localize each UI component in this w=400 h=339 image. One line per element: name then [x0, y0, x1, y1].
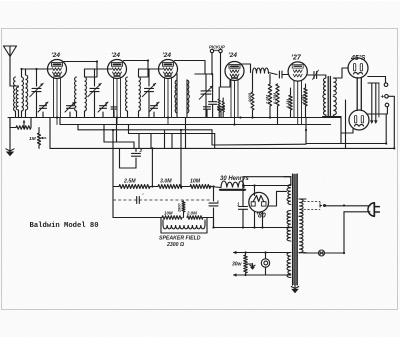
- svg-text:’24: ’24: [228, 52, 237, 59]
- speaker terminal 1: [384, 83, 388, 87]
- antenna coil L1: [16, 69, 36, 118]
- tube pins to bus: [165, 78, 172, 125]
- resistor 2800 vert: [178, 201, 186, 218]
- svg-text:45’S: 45’S: [350, 55, 366, 62]
- label 2.5M: [123, 179, 136, 185]
- bus vert x=306: [305, 118, 307, 144]
- svg-text:+: +: [381, 94, 385, 101]
- 1M resistor: [29, 128, 46, 149]
- wire y=227.5: [214, 227, 293, 229]
- vertical x=152.4: [151, 148, 153, 186]
- label '24: [162, 52, 171, 59]
- 45 filament leads: [368, 83, 379, 124]
- detector plate wire: [242, 64, 251, 73]
- svg-text:’24: ’24: [111, 52, 120, 59]
- svg-text:10M: 10M: [190, 179, 201, 185]
- svg-text:3.0M: 3.0M: [160, 179, 172, 185]
- label 10M field: [164, 211, 173, 216]
- wire T1 bottom to grid2: [341, 117, 353, 144]
- small cap C2b: [111, 107, 117, 118]
- label 30 Henrys: [220, 176, 249, 182]
- bus wire E y=148.4: [50, 147, 394, 149]
- rf choke: [253, 68, 269, 74]
- wire coil to grid: [85, 69, 113, 86]
- power transformer core: [292, 174, 297, 285]
- bypass cap 3: [204, 107, 211, 118]
- svg-text:2800: 2800: [178, 203, 182, 213]
- pt right winding 2: [299, 216, 306, 252]
- '45 tube V6: [348, 58, 368, 78]
- pickup label: [209, 45, 225, 50]
- trimmer cap C2a: [98, 102, 108, 118]
- title text: [30, 222, 99, 230]
- svg-text:2.0M: 2.0M: [186, 211, 197, 216]
- tuning coil (stage at x=117): [75, 77, 87, 118]
- label 10M: [190, 179, 201, 185]
- pt left winding 1: [284, 177, 291, 205]
- pt right winding 1: [299, 199, 306, 216]
- pickup wires: [195, 53, 230, 87]
- pickup coupling cap: [209, 74, 217, 118]
- resistor 10M: [182, 185, 211, 189]
- trimmer cap C1b: [65, 102, 75, 118]
- speaker terminal 3: [385, 103, 389, 107]
- svg-text:2.0M: 2.0M: [265, 94, 270, 105]
- wire tube2 plate to coil3: [124, 61, 149, 78]
- svg-text:2.5M: 2.5M: [300, 94, 305, 105]
- wire tube3 plate to det coil: [175, 61, 206, 75]
- filter cap 2: [237, 177, 248, 228]
- tube pins to bus: [114, 78, 121, 125]
- maze wires: [104, 118, 186, 149]
- '24 detector tube: [225, 62, 244, 81]
- resistor .0005 cap: [247, 73, 254, 118]
- label speaker field: [159, 236, 201, 242]
- detector coil: [175, 74, 205, 118]
- label '24 det: [228, 52, 237, 59]
- pt ground: [291, 284, 299, 293]
- svg-text:0.1M: 0.1M: [285, 98, 290, 108]
- bus wire B y=124.5: [60, 118, 331, 125]
- bus vert x=345.5: [345, 100, 347, 148]
- wire coil to grid: [139, 69, 164, 86]
- wire sec top to 45 grid: [333, 68, 348, 78]
- bus wire C y=130: [78, 125, 306, 146]
- pickup jack right: [214, 49, 223, 52]
- resistor 2.5M: [300, 84, 307, 118]
- coupling capacitor: [269, 71, 289, 78]
- '27 tube U5: [288, 62, 307, 81]
- svg-text:.0005: .0005: [247, 92, 252, 103]
- svg-text:’24: ’24: [51, 52, 60, 59]
- bus wire A y=117.5: [8, 117, 341, 119]
- bypass cap 4: [218, 107, 225, 118]
- choke 30H: [211, 181, 291, 190]
- tube pins to bus: [54, 78, 61, 125]
- label 2300: [166, 242, 184, 248]
- tuning coil (stage at x=57): [14, 77, 24, 118]
- label 3.0M: [160, 179, 172, 185]
- svg-text:’80: ’80: [256, 213, 266, 220]
- dial lamp: [261, 253, 269, 276]
- resistor 2.5M: [113, 185, 150, 189]
- label '24: [51, 52, 60, 59]
- pilot lamp fuse: [319, 250, 325, 256]
- 45 envelope bar: [357, 78, 361, 111]
- wire y=176.7: [243, 176, 291, 178]
- filter cap 1: [209, 187, 220, 228]
- trimmer cap C3a: [149, 102, 159, 118]
- grid leak cap: [222, 98, 224, 118]
- variable tuning capacitor: [30, 83, 43, 117]
- svg-text:Baldwin Model 80: Baldwin Model 80: [30, 222, 99, 230]
- detector pins: [231, 80, 238, 125]
- svg-text:’27: ’27: [291, 55, 302, 62]
- svg-text:2.5M: 2.5M: [123, 179, 136, 185]
- label '24: [111, 52, 120, 59]
- svg-text:10M: 10M: [164, 211, 173, 216]
- '24 tube at x=168: [159, 60, 178, 79]
- hum resistor 30w: [232, 253, 247, 276]
- terminal2 wire: [388, 96, 394, 148]
- svg-text:2300 Ω: 2300 Ω: [166, 242, 184, 248]
- trimmer cap C1a: [38, 102, 48, 118]
- grid leak resistor: [218, 87, 220, 118]
- tuning coil (stage at x=168): [126, 77, 141, 118]
- wire x=50 down: [49, 118, 51, 149]
- variable tuning capacitor: [88, 83, 101, 117]
- pickup jack left: [210, 49, 213, 52]
- antenna: [4, 46, 19, 86]
- label '80: [256, 213, 266, 220]
- ac plug: [368, 203, 379, 217]
- grid capacitor: [307, 70, 321, 80]
- '24 tube at x=117: [108, 60, 127, 79]
- svg-text:SPEAKER FIELD: SPEAKER FIELD: [159, 236, 201, 242]
- detector var capacitor: [199, 74, 212, 118]
- '27 pins: [294, 80, 302, 124]
- cap 2 on x=136: [132, 148, 143, 168]
- vertical x=181: [180, 130, 182, 187]
- speaker terminal 2: [381, 94, 389, 101]
- '24 tube at x=57: [48, 60, 67, 79]
- terminal3 wire: [385, 114, 387, 144]
- hum pot tap: [246, 264, 256, 270]
- label '27: [291, 55, 302, 62]
- svg-text:’24: ’24: [162, 52, 171, 59]
- hv tap dashed: [304, 202, 326, 210]
- svg-text:PICKUP: PICKUP: [209, 45, 225, 50]
- divider resistors: [113, 216, 214, 220]
- '80 rectifier tube: [249, 192, 269, 212]
- divider line: [113, 194, 210, 204]
- grid resistor 2.0M: [265, 75, 272, 118]
- pt left winding 3: [287, 253, 291, 278]
- '80 plate feed: [254, 186, 256, 196]
- pot resistor: [10, 118, 31, 130]
- 45 plate wire bottom: [366, 107, 387, 114]
- svg-text:1M: 1M: [29, 136, 37, 142]
- wire x=213 down: [213, 218, 215, 228]
- svg-text:30w: 30w: [232, 262, 243, 268]
- '80 filament pins: [255, 212, 263, 228]
- cathode resistor: [272, 84, 279, 125]
- speaker field coil: [161, 218, 207, 234]
- pot tap: [23, 120, 26, 128]
- fil wire bottom: [233, 273, 291, 276]
- bias resistor: [285, 88, 292, 118]
- wire tube1 plate to coil2: [64, 62, 98, 78]
- pt left winding 2: [287, 211, 291, 242]
- fil wire top: [233, 251, 291, 254]
- resistor 3.0M: [150, 185, 182, 189]
- audio interstage transformer T1: [322, 75, 342, 117]
- '45 tube V7: [349, 110, 369, 130]
- svg-text:2: 2: [139, 148, 143, 153]
- vertical x=113: [112, 130, 114, 218]
- bus wire F y=143.5: [306, 143, 386, 145]
- variable tuning capacitor: [142, 83, 155, 117]
- svg-text:0.25M: 0.25M: [272, 92, 277, 104]
- bus wire D y=133.5: [129, 134, 215, 149]
- ground (antenna): [6, 118, 14, 157]
- ac cord: [304, 206, 370, 253]
- label 2.0M field: [186, 211, 197, 216]
- wire coil to grid: [22, 69, 53, 86]
- 45 plate wire top: [368, 77, 386, 83]
- vertical x=119.5 jog: [120, 148, 137, 168]
- label 45'S: [350, 55, 366, 62]
- '80 right elbow: [269, 191, 287, 206]
